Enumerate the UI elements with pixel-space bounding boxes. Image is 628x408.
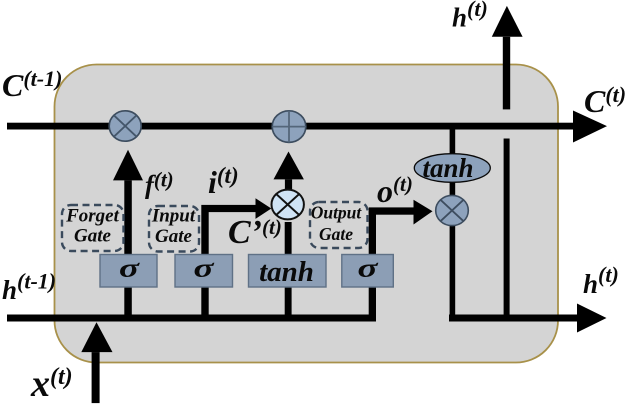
svg-text:σ: σ — [194, 254, 215, 283]
sigma box 2 (input gate) — [175, 254, 233, 288]
wire: hidden state line h (bottom left segment) — [7, 315, 376, 322]
svg-text:Gate: Gate — [74, 226, 112, 247]
LSTM cell body — [55, 65, 559, 363]
svg-text:σ: σ — [358, 254, 379, 283]
output gate dashed label box — [310, 202, 368, 248]
tanh ellipse — [414, 153, 490, 183]
input gate dashed label box — [149, 206, 199, 252]
wire: arrow from candidate node up into plus node — [274, 152, 304, 191]
svg-text:Gate: Gate — [319, 224, 353, 244]
wire: tanh branch vertical from C line down to output line — [450, 129, 456, 322]
svg-text:Input: Input — [151, 206, 196, 227]
svg-text:h(t): h(t) — [583, 262, 619, 299]
sigma box 1 (forget gate) — [100, 254, 157, 288]
wire: forget gate vertical with arrow into multiply node — [113, 150, 143, 322]
wire: cell state line C (horizontal top) — [7, 111, 607, 143]
svg-text:h(t-1): h(t-1) — [2, 269, 56, 306]
svg-text:tanh: tanh — [259, 256, 314, 288]
wire: hidden state output segment (bottom right) with arrowhead — [449, 304, 607, 333]
svg-text:x(t): x(t) — [30, 363, 73, 405]
svg-text:h(t): h(t) — [452, 0, 488, 33]
svg-text:σ: σ — [119, 254, 140, 283]
wire: h(t) top output vertical lower segment — [504, 139, 510, 319]
svg-text:tanh: tanh — [422, 153, 473, 183]
svg-text:C(t): C(t) — [584, 82, 626, 119]
svg-text:C(t-1): C(t-1) — [2, 66, 62, 103]
sigma box 3 (output gate) — [342, 254, 394, 288]
wire: input x(t) arrow from below into h line — [81, 322, 112, 403]
plus node on C line — [272, 111, 306, 143]
svg-text:Forget: Forget — [65, 206, 120, 227]
svg-text:Output: Output — [311, 203, 363, 223]
wire: output gate elbow with arrow into output multiply node — [369, 200, 433, 322]
wire: h(t) top output vertical upper segment with arrowhead — [492, 6, 523, 109]
candidate multiply node (light) — [272, 190, 304, 220]
forget gate dashed label box — [62, 205, 124, 251]
output multiply node — [436, 195, 469, 225]
tanh box (candidate) — [249, 255, 327, 289]
svg-text:Gate: Gate — [155, 226, 193, 247]
wire: candidate branch vertical from bottom line up to candidate node — [285, 222, 292, 322]
multiply node (forget) on C line — [109, 111, 141, 141]
wire: input gate elbow with arrow into candidate multiply node — [201, 198, 271, 321]
